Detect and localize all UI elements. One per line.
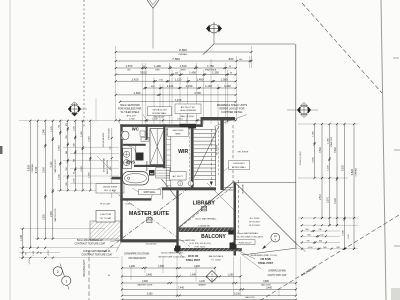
ac duct box wir [170,172,187,181]
svg-text:9FL B'FDR: 9FL B'FDR [217,144,219,155]
right dim col 1 [313,123,316,179]
svg-text:DOWNPIPE ON STAND-: DOWNPIPE ON STAND- [124,253,150,256]
left dim col f [81,120,84,192]
svg-text:OF T'COAT: OF T'COAT [100,217,112,220]
boundary line bottom-right (dashed) [261,215,399,300]
svg-text:OVERALL: OVERALL [178,53,188,56]
section circles 2 and 1 [53,264,71,290]
svg-text:BALCONY: BALCONY [201,234,226,240]
svg-text:100 TILES: 100 TILES [188,250,198,252]
note 1000h bgy apped wall box [221,160,249,173]
svg-text:4,100: 4,100 [199,281,205,283]
svg-text:3,510: 3,510 [140,71,147,75]
balcony interior notes [179,239,211,252]
svg-text:ENS: ENS [126,159,135,164]
svg-text:BOUNDARY: BOUNDARY [82,260,86,277]
bottom dim row 6 partial [121,299,297,300]
svg-text:7,560: 7,560 [172,57,180,61]
svg-text:OVERALL: OVERALL [31,164,34,173]
svg-text:BALCONY: BALCONY [261,284,271,287]
svg-text:2,350: 2,350 [88,135,90,141]
svg-text:1000H BGY: 1000H BGY [233,163,245,165]
svg-text:1,890: 1,890 [158,266,164,268]
left dim col c [58,120,61,192]
svg-text:150mm MASTERWALL W-: 150mm MASTERWALL W- [83,250,111,253]
svg-text:3,190: 3,190 [51,161,53,167]
wc door arc [128,146,136,154]
note pocket lines right of balcony [249,218,261,227]
left dim col d [66,120,69,192]
bottom dim row 4 [121,288,297,291]
svg-text:2,510: 2,510 [320,193,322,199]
svg-text:NB TEXTURE COAT 40mm: NB TEXTURE COAT 40mm [159,255,186,258]
note masterwall texture concrete [237,232,263,239]
svg-text:3,460: 3,460 [146,275,152,277]
svg-text:930: 930 [66,167,68,170]
note 100h wall box [132,188,161,195]
svg-text:50mm MASTERWALL W-: 50mm MASTERWALL W- [77,239,103,242]
master suite floor symbol [147,218,152,223]
shr-wir wall [163,124,165,168]
balustrade corner block [228,230,233,234]
svg-text:SOHB: SOHB [125,203,132,205]
svg-text:OVERFLOW BW: OVERFLOW BW [268,271,286,273]
master ceiling rake (dash-dot) down-right [112,190,190,247]
terrace hip diagonal [234,182,297,245]
svg-text:50mm MASTERW: 50mm MASTERW [179,239,195,242]
svg-text:BALUSTRADE: BALUSTRADE [209,255,224,258]
svg-text:MASTER SUITE: MASTER SUITE [129,211,170,217]
terrace eave bottom edge [242,248,297,255]
svg-text:REFER LAYOUT FOR: REFER LAYOUT FOR [220,108,245,111]
svg-text:1,540: 1,540 [43,128,45,134]
svg-text:CAVITY DRY CAP: CAVITY DRY CAP [268,274,287,277]
svg-text:150mm MASTERWALL: 150mm MASTERWALL [161,252,185,255]
toilet wc [121,131,129,139]
boundary line top-right (dashed) [302,3,382,93]
right dim col 2 [320,123,323,219]
svg-text:4F L B.WK: 4F L B.WK [250,218,261,220]
bottom dim row 1 [121,266,216,269]
library dashed rake [180,187,233,228]
svg-text:W- TILED SHELF: W- TILED SHELF [121,111,140,114]
wc fitting box 1 [140,131,145,136]
svg-text:CONTRAST TEXTURE COAT: CONTRAST TEXTURE COAT [82,254,113,257]
svg-text:WC: WC [127,70,131,72]
svg-text:840: 840 [229,57,234,61]
svg-text:2,620: 2,620 [81,165,83,171]
svg-text:FURTHER DETAIL: FURTHER DETAIL [221,111,243,114]
svg-text:1,940: 1,940 [343,229,345,235]
svg-text:1,210: 1,210 [175,77,182,81]
left edge black mark [0,146,3,154]
svg-text:3,880: 3,880 [263,281,269,283]
bottom dim row 5 [121,294,297,300]
svg-text:LIBRARY: LIBRARY [198,284,207,287]
svg-text:STEEL POST: STEEL POST [258,262,273,265]
ens dark cabinet [136,153,144,161]
svg-text:940: 940 [66,151,68,154]
exterior wall top (stair) raised [201,117,236,120]
svg-text:1,670: 1,670 [126,64,133,68]
svg-text:OVERALL: OVERALL [355,168,358,177]
svg-text:DRAWER & SHELF UNITS: DRAWER & SHELF UNITS [217,104,248,107]
left dim extension horizontals [19,121,119,258]
svg-text:50mm MASTERWALL: 50mm MASTERWALL [237,232,259,235]
svg-text:1,020: 1,020 [73,126,75,131]
svg-text:8,560: 8,560 [179,48,187,52]
stair going line dashed with arrow [210,129,213,186]
svg-text:9,820: 9,820 [350,168,354,175]
boundary line left (dashed vertical) [88,250,90,300]
svg-text:1,260: 1,260 [228,275,234,277]
left dim col g [88,120,91,192]
dimension row 8,560 overall [115,48,253,53]
svg-text:A/C DUCT: A/C DUCT [173,175,184,178]
note balustrade [209,255,224,262]
svg-text:APPED WALL: APPED WALL [232,166,247,169]
terrace north edge [236,182,296,184]
corner smudge bottom right [391,288,400,300]
svg-text:1,350: 1,350 [212,71,219,75]
svg-text:1,540: 1,540 [180,64,187,68]
svg-text:1,040: 1,040 [224,84,231,88]
grid line x=153 with diamond head [147,0,159,49]
right margin faint marks [393,58,400,246]
wall jog at stair [201,117,203,127]
dimension row 3,510 [115,71,237,76]
left dim col 8,730 [34,120,39,240]
svg-text:3F'L B.WK: 3F'L B.WK [242,183,244,193]
svg-text:1,950: 1,950 [88,171,90,177]
svg-text:2,690: 2,690 [134,91,141,95]
note drawer shelf units [214,104,247,127]
svg-text:SHOWER MIN: SHOWER MIN [104,157,106,172]
svg-text:1,120: 1,120 [51,125,53,131]
svg-text:1,480: 1,480 [197,77,204,81]
svg-text:150 B NB: 150 B NB [260,258,271,261]
reference bubble 13 [262,233,279,249]
svg-text:7,270: 7,270 [175,98,182,102]
vanity basin 1 [124,151,130,157]
left dim col 9,820 overall [26,120,31,249]
svg-text:WC: WC [132,126,139,131]
svg-text:RAINHEAD: RAINHEAD [146,160,149,171]
roof eave line vertical right [295,44,297,248]
sheet border right [381,0,386,300]
svg-text:SHR: SHR [155,70,160,72]
robe front dashed edge [188,128,190,186]
svg-text:1,100: 1,100 [328,164,330,170]
svg-text:1: 1 [65,279,67,283]
note sill 45H [96,156,124,193]
svg-text:990: 990 [73,159,75,162]
right dim col 4b [343,123,346,250]
title diamond marker [206,271,218,283]
stair far wall [220,120,223,190]
right dim extension horizontals [298,124,358,249]
survey marker at (74.5,109) [68,102,87,117]
svg-text:HWR: HWR [181,70,186,72]
ens-master wall with door gap [120,165,164,201]
dimension row inner top [115,119,237,122]
svg-text:60H TILED: 60H TILED [173,130,184,132]
wc-shr wall [146,124,148,139]
svg-text:1,660: 1,660 [129,119,135,121]
svg-text:4P @ 4G7: 4P @ 4G7 [126,115,136,117]
svg-text:WIR: WIR [178,149,188,155]
note masterwall contrast 1 [75,239,120,246]
svg-text:41 4L (P4) 100 40 (3%): 41 4L (P4) 100 40 (3%) [189,243,211,245]
tub nook band [112,177,121,180]
note ac duct box [175,104,201,123]
svg-text:8,730: 8,730 [34,166,38,173]
faint vertical x=96 [95,98,97,121]
svg-text:3,460: 3,460 [266,288,272,290]
bottom dim row 3 [121,281,297,287]
svg-text:9,820: 9,820 [26,164,30,171]
svg-text:BALL @ HIGH: BALL @ HIGH [106,159,109,174]
bottom dim extension verticals [122,242,296,296]
roof eave hip stub [203,44,214,55]
stair right wall [215,127,217,186]
balcony south edge band [174,248,242,251]
svg-text:6,150: 6,150 [234,294,240,296]
svg-text:1,640: 1,640 [58,173,60,179]
note bound wall box [148,107,172,119]
svg-text:1,180: 1,180 [33,250,35,256]
svg-text:3,190: 3,190 [335,197,337,203]
svg-text:1,150: 1,150 [186,84,193,88]
svg-text:FLR2 GULLY: FLR2 GULLY [239,242,253,244]
svg-text:1,000: 1,000 [152,119,158,121]
stair bottom wall light segment [224,188,233,190]
svg-text:1,290: 1,290 [73,179,75,184]
eaves hatch zone west of master [90,221,121,240]
left dim col 1,190 [20,228,24,259]
svg-text:1,490: 1,490 [154,64,161,68]
scan edge line left [9,0,11,300]
left rotated wall notes [103,128,111,174]
rw chute box [149,168,170,179]
svg-text:470: 470 [66,123,68,126]
svg-text:3,590: 3,590 [335,146,337,152]
circled numbers on stair wall [178,181,193,186]
svg-text:W- TEXTURE CONC.BDR: W- TEXTURE CONC.BDR [237,236,263,238]
svg-text:75POA @ 4G7: 75POA @ 4G7 [152,109,167,112]
svg-text:1,750: 1,750 [207,64,214,68]
master-library wall [176,190,178,252]
note flr gully box [232,240,255,245]
svg-text:SRA @ 4G7: SRA @ 4G7 [154,116,166,119]
note steel post sw bold [179,254,201,263]
svg-text:SEAT: SEAT [175,133,181,136]
svg-text:9F @ 120H: 9F @ 120H [100,203,111,205]
svg-text:BALCONY: BALCONY [245,296,255,299]
library valley diagonal [178,182,235,229]
dimension row wc/shr/hwr [115,64,237,72]
svg-text:MASTER SUITE: MASTER SUITE [54,159,57,173]
master ceiling rake (dash-dot) up-right [104,184,194,252]
svg-text:FOR TILES: FOR TILES [195,246,206,248]
left dim col b [51,120,54,240]
svg-text:2,180: 2,180 [313,156,315,162]
svg-text:SOHW BLEND: SOHW BLEND [103,132,105,147]
left bottom mini ticks [22,247,54,265]
note 150 nb steel post [239,251,273,265]
svg-text:2,960: 2,960 [51,210,53,216]
master suite south wall [120,239,178,242]
stair bottom wall dark segment [162,187,216,190]
svg-text:RENDERED (BMK TO 4%): RENDERED (BMK TO 4%) [251,255,278,257]
steel post sw [175,246,181,252]
svg-text:1,380: 1,380 [221,77,228,81]
shower with glass X [150,129,164,165]
dimension row 2,690 [115,91,237,96]
svg-text:1,110: 1,110 [167,84,174,88]
note 60h tiled seat [168,127,189,136]
svg-text:STEEL POST: STEEL POST [186,260,201,262]
dimension row 890/1,110 [143,84,236,89]
roof eave line horizontal [214,43,295,45]
svg-text:1,640: 1,640 [190,275,196,277]
dimension row 7,560 / 840 [115,57,253,62]
stair void dashed balustrade [217,118,219,177]
svg-text:1,090: 1,090 [328,137,330,143]
svg-text:2,110: 2,110 [177,119,183,121]
svg-text:9FL B'FDR: 9FL B'FDR [238,152,249,154]
svg-text:CONTRAST TEXTURE COAT: CONTRAST TEXTURE COAT [75,243,106,246]
svg-text:2,590: 2,590 [43,213,45,219]
library solid rake [207,183,234,210]
right dim col 4 [335,123,338,226]
library right wall [234,183,237,256]
section callout box t-coat [96,211,115,223]
centreline (dash-dot) x=84 [83,0,85,128]
svg-text:1,100: 1,100 [29,259,31,265]
svg-text:2,280: 2,280 [194,266,200,268]
top dim extension verticals [116,46,252,124]
svg-text:840: 840 [73,143,75,146]
wc fitting box 2 [141,137,149,141]
svg-text:50mm MASTERWALL: 50mm MASTERWALL [195,217,217,220]
svg-text:890: 890 [66,135,68,138]
svg-text:7,440: 7,440 [178,288,184,290]
balcony north balustrade band (hatched) [179,227,234,232]
note masterwall contrast 2 [82,243,121,257]
bathtub [123,172,149,185]
stair treads [194,130,216,180]
svg-text:1,190: 1,190 [348,234,350,240]
svg-text:HIGH OPENING: HIGH OPENING [180,110,196,112]
svg-text:100 B 100: 100 B 100 [188,256,199,258]
svg-text:2,960: 2,960 [142,281,148,283]
svg-text:150x50x045: 150x50x045 [146,244,158,246]
right bottom mini rows [301,217,355,250]
svg-text:2,420: 2,420 [132,77,139,81]
svg-text:350x50 50HW: 350x50 50HW [103,186,118,188]
svg-text:OFF BRACKETS: OFF BRACKETS [128,257,146,260]
dimension row 2,420 [115,77,237,82]
steel post se [230,243,237,250]
valley line into master corner [162,179,178,199]
svg-text:1,850: 1,850 [58,144,60,150]
dimension row 7,270 [119,98,237,103]
svg-text:BOUND WALL: BOUND WALL [152,112,167,115]
library floor symbol [201,206,206,211]
svg-text:1,400: 1,400 [189,71,196,75]
ens side dim line [110,128,113,198]
svg-text:1,690: 1,690 [81,130,83,136]
svg-text:HIGH B.WK: HIGH B.WK [109,128,111,140]
wc south wall [123,144,146,146]
svg-text:BALL @ 120H: BALL @ 120H [181,115,194,118]
svg-text:3,090: 3,090 [43,166,45,172]
svg-text:1,190: 1,190 [20,234,23,241]
svg-text:2F POCKET: 2F POCKET [249,225,261,227]
svg-text:2,400(B) MD: 2,400(B) MD [198,225,211,227]
wir shelf strip [166,127,171,189]
stair pitch diagonal [194,126,219,178]
svg-text:TO 10000: TO 10000 [211,260,221,262]
svg-text:1,390: 1,390 [313,130,315,136]
vanity basin 2 [124,160,130,166]
note 50mm setdown [118,104,148,122]
svg-text:2,970: 2,970 [328,196,330,202]
svg-text:1 SECTION: 1 SECTION [100,214,112,216]
svg-text:100H WALL: 100H WALL [143,191,156,194]
svg-text:800: 800 [66,182,68,185]
elevation marker E1 at (211,27) [206,22,222,44]
svg-text:1,280: 1,280 [129,266,135,268]
note overflow cavity [240,253,287,277]
terrace eave stub [297,245,306,252]
right dim col 3 [328,123,331,226]
svg-text:STAIR VOID: STAIR VOID [330,136,333,147]
svg-text:4,790: 4,790 [194,91,201,95]
svg-text:90: 90 [73,172,75,174]
svg-text:MASTER SUITE: MASTER SUITE [54,208,57,222]
left dim col e [73,120,76,192]
svg-text:LIBRARY: LIBRARY [193,200,216,206]
right dim col 5 overall [350,123,355,250]
wall niche ac duct dark block [180,124,197,129]
svg-text:1,140: 1,140 [205,84,212,88]
svg-text:2: 2 [57,270,59,274]
left dim col a [43,120,46,240]
vanity counter [123,148,132,168]
exterior wall left [120,124,122,241]
note masterwall texture 3 [159,252,186,259]
svg-text:W POCKET: W POCKET [249,222,261,224]
svg-text:1,100: 1,100 [307,247,313,249]
note downpipe [124,253,150,260]
survey marker at (304,110) [287,103,318,118]
svg-text:3,590: 3,590 [320,146,322,152]
svg-text:6,230: 6,230 [343,164,345,170]
ens door arc [151,188,163,200]
svg-text:MASTER SUITE: MASTER SUITE [138,284,153,287]
stair left wall [191,127,194,188]
svg-text:3,390: 3,390 [147,294,153,296]
exterior wall top (wc-wir) [120,124,202,127]
bottom dim row 2 [121,275,242,278]
svg-text:4,730: 4,730 [48,250,50,256]
svg-text:A/C DUCT W/-: A/C DUCT W/- [181,106,196,109]
svg-text:B.WK @ BDY: B.WK @ BDY [300,151,302,165]
